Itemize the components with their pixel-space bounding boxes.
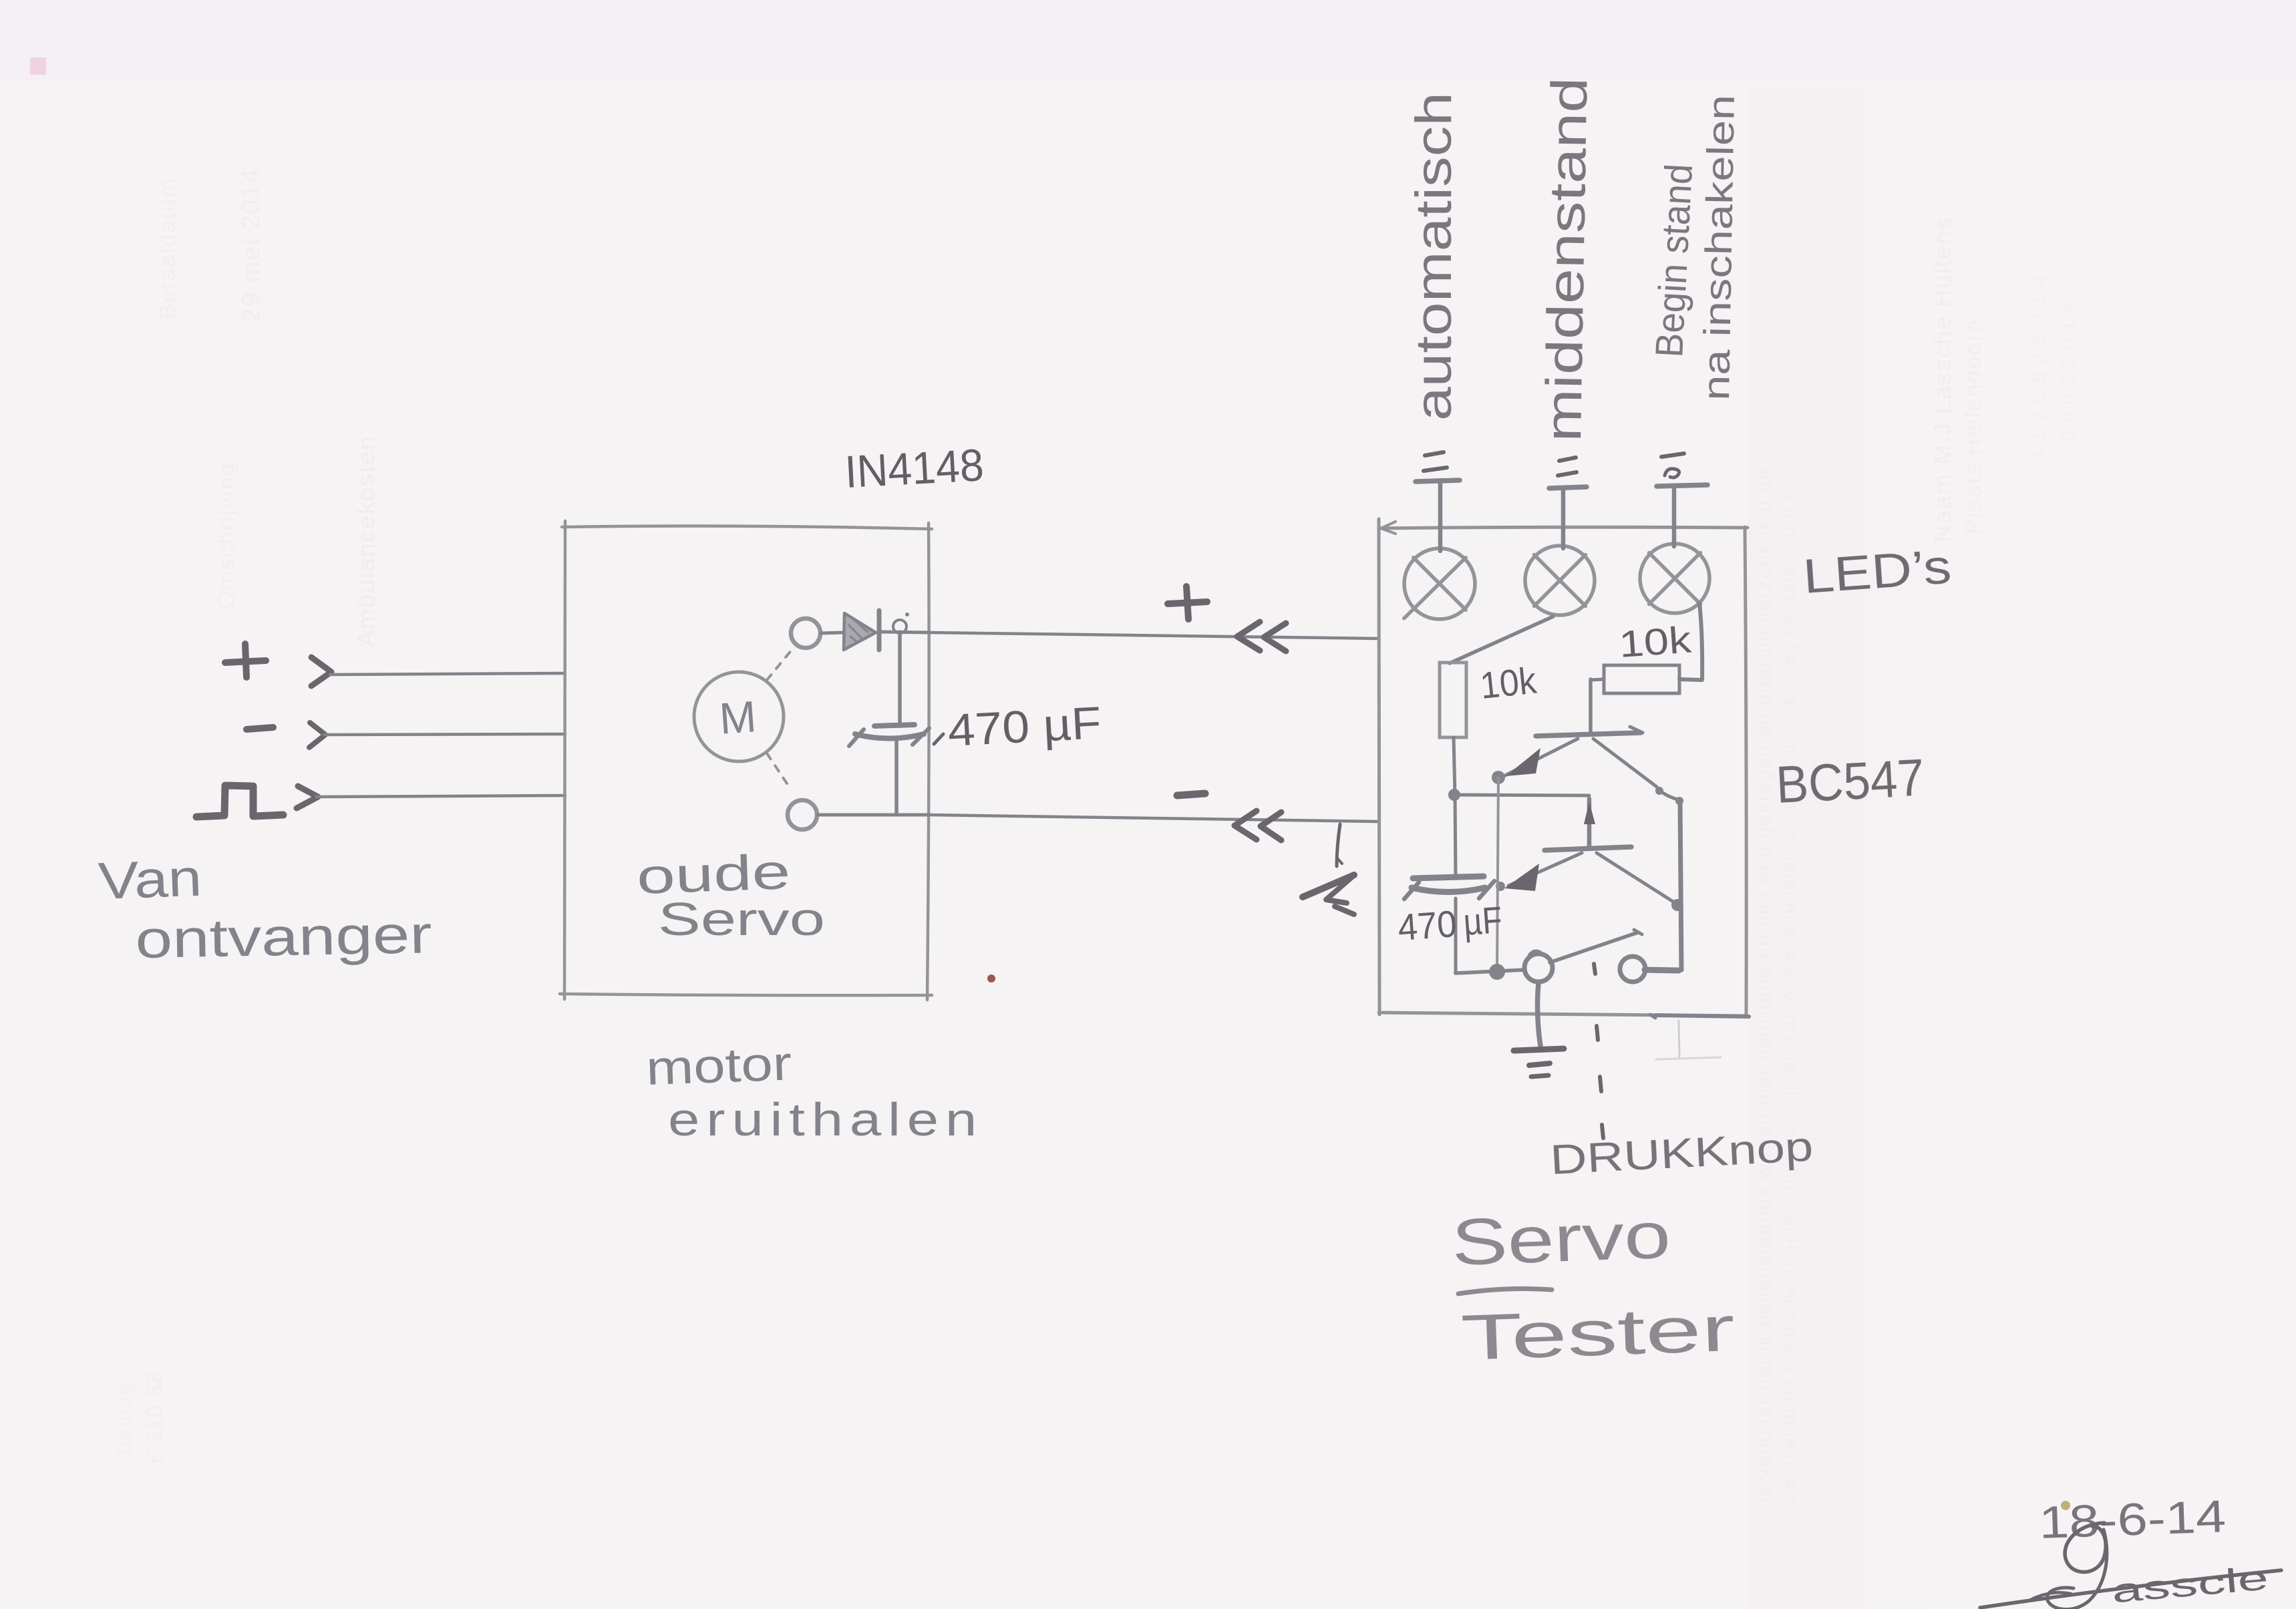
pulse squiggle symbol [1303, 875, 1354, 897]
svg-text:470 µF: 470 µF [947, 697, 1103, 756]
wire LED3 down to R2 [1699, 603, 1702, 680]
wire input pulse [317, 795, 565, 797]
svg-text:IN4148: IN4148 [844, 439, 985, 498]
resistor R1 10k (vertical) [1440, 663, 1466, 737]
dashed drop to DRUKKNOP [1594, 964, 1603, 1138]
transistor Q2 BC547 [1587, 799, 1592, 848]
R1 bottom stem [1454, 737, 1455, 795]
capacitor C2 bottom dish [1412, 888, 1485, 892]
svg-text:ontvanger: ontvanger [135, 904, 432, 969]
terminal ring lower [788, 800, 817, 830]
small e squiggle above LED3 [1665, 469, 1679, 478]
input arrow 1 [311, 657, 331, 686]
plus symbol (input +) [225, 644, 266, 677]
svg-text:Naam M.J Lassche Hultens: Naam M.J Lassche Hultens [1929, 216, 1956, 542]
svg-text:BC547: BC547 [1774, 747, 1925, 814]
capacitor C1 470uF stem [898, 632, 902, 723]
terminal ring upper [791, 618, 820, 648]
wire ring to diode [821, 633, 843, 633]
diode D1 1N4148 [844, 610, 879, 650]
wire + between boxes [930, 633, 1379, 639]
wire input + [330, 673, 565, 675]
capacitor C1 top plate [874, 725, 915, 726]
capacitor C1 bottom dish [855, 734, 924, 739]
svg-text:€ 310,88: € 310,88 [142, 1370, 166, 1464]
svg-text:ik verklaar dat ik bovenstaand: ik verklaar dat ik bovenstaande wagen hi… [1753, 467, 1775, 1503]
overdrawn bottom-right segment [1655, 1015, 1749, 1017]
input arrow 2 [309, 723, 325, 747]
label oude Servo [636, 844, 825, 945]
svg-text:eruithalen: eruithalen [668, 1093, 983, 1145]
svg-text:Tester: Tester [1460, 1293, 1736, 1374]
svg-text:4 1 2 0 5 2 6 0 1 4: 4 1 2 0 5 2 6 0 1 4 [2028, 274, 2050, 461]
LED 3 stem wire [1672, 486, 1677, 546]
LED 2 lamp [1525, 546, 1595, 615]
push button lever [1550, 932, 1638, 962]
svg-text:Ambulancekosten: Ambulancekosten [352, 435, 379, 647]
label Van ontvanger [98, 848, 433, 969]
wire LED2 to R1 (diagonal) [1450, 616, 1553, 663]
resistor R2 10k (horizontal) [1604, 665, 1679, 693]
box servo tester [1379, 519, 1748, 1016]
svg-text:Bedrag: Bedrag [113, 1382, 135, 1455]
svg-text:µF: µF [1462, 898, 1503, 943]
input arrow 3 [297, 786, 318, 808]
chevrons on + wire [1237, 622, 1260, 651]
svg-text:een voordelige bandage wanneer: een voordelige bandage wanneer hier nodi… [1804, 503, 1825, 1466]
wire lower ring to box edge [818, 814, 930, 817]
svg-text:Omschrijving: Omschrijving [214, 462, 239, 609]
svg-text:10k: 10k [1478, 659, 1539, 707]
motor M circle [694, 672, 784, 761]
wire input - [324, 734, 565, 735]
right vertical wire (Q1 collector to switch) [1680, 800, 1681, 970]
svg-text:motor: motor [645, 1037, 793, 1095]
LED 2 stem wire [1561, 488, 1566, 548]
arrow tick top-left corner [1381, 522, 1396, 534]
junction dots Q1 [1492, 771, 1505, 784]
svg-text:middenstand: middenstand [1535, 77, 1599, 442]
small node ring after diode [893, 620, 907, 633]
transistor Q1 BC547 [1589, 679, 1593, 734]
svg-text:Servo: Servo [1450, 1198, 1672, 1279]
svg-text:na inschakelen: na inschakelen [1695, 94, 1742, 401]
label motor eruithalen [645, 1037, 983, 1145]
svg-text:470: 470 [1396, 902, 1458, 948]
capacitor C2 470uF top plate [1413, 876, 1484, 878]
chevrons on - wire [1235, 811, 1257, 840]
pink speck top-left [30, 57, 46, 75]
minus symbol (input -) [247, 727, 273, 729]
LED 1 lamp [1404, 548, 1475, 619]
wire - between boxes [930, 815, 1379, 822]
faint pencil leftovers below box [1679, 1021, 1679, 1057]
push button right contact [1620, 956, 1645, 982]
bleed-through ghost text [113, 168, 2078, 1506]
dark speck near signature [2061, 1501, 2070, 1510]
label - (middle) [1177, 793, 1205, 795]
ground stem [1538, 982, 1540, 1046]
underline [1458, 1288, 1552, 1294]
push button left contact [1524, 954, 1552, 982]
wire diode to box edge [880, 632, 930, 633]
svg-text:10k: 10k [1617, 618, 1693, 665]
signature [1980, 1523, 2281, 1609]
capacitor C1 lower stem [894, 737, 898, 815]
dashed link motor to upper terminal [767, 649, 792, 680]
label + (middle) [1168, 586, 1207, 619]
LED 3 lamp [1640, 544, 1709, 613]
box oude servo [560, 521, 932, 1000]
svg-text:Servo: Servo [658, 893, 825, 945]
svg-text:Plaats Hellendoorn: Plaats Hellendoorn [1961, 319, 1986, 534]
bottom wire to push button [1456, 970, 1525, 973]
ground symbol [1514, 1049, 1564, 1077]
pulse tap on - wire [1337, 824, 1340, 866]
svg-text:0 8 0 6 2 0 1 4: 0 8 0 6 2 0 1 4 [2058, 301, 2078, 441]
pulse symbol (input signal) [196, 785, 283, 817]
svg-text:18-6-14: 18-6-14 [2038, 1491, 2227, 1548]
label 470 uF (C1) [934, 734, 943, 744]
dashed link motor to lower terminal [767, 753, 791, 789]
svg-text:om eventuele medische regelen: om eventuele medische regelen die voor z… [1779, 476, 1800, 1506]
svg-text:Van: Van [98, 848, 203, 910]
svg-text:M: M [717, 691, 758, 743]
LED 1 stem wire [1438, 480, 1443, 551]
wire junction to Q2 (horizontal) [1454, 795, 1589, 795]
left vertical wire through C2 [1455, 795, 1456, 876]
red speck [987, 974, 995, 982]
svg-text:LED’s: LED’s [1802, 540, 1953, 604]
mid vertical wire (Q1 emitter junction down) [1497, 778, 1498, 972]
svg-text:29 mei 2014: 29 mei 2014 [237, 168, 265, 322]
svg-text:automatisch: automatisch [1406, 92, 1462, 421]
svg-text:Betaaldatum: Betaaldatum [155, 177, 180, 319]
